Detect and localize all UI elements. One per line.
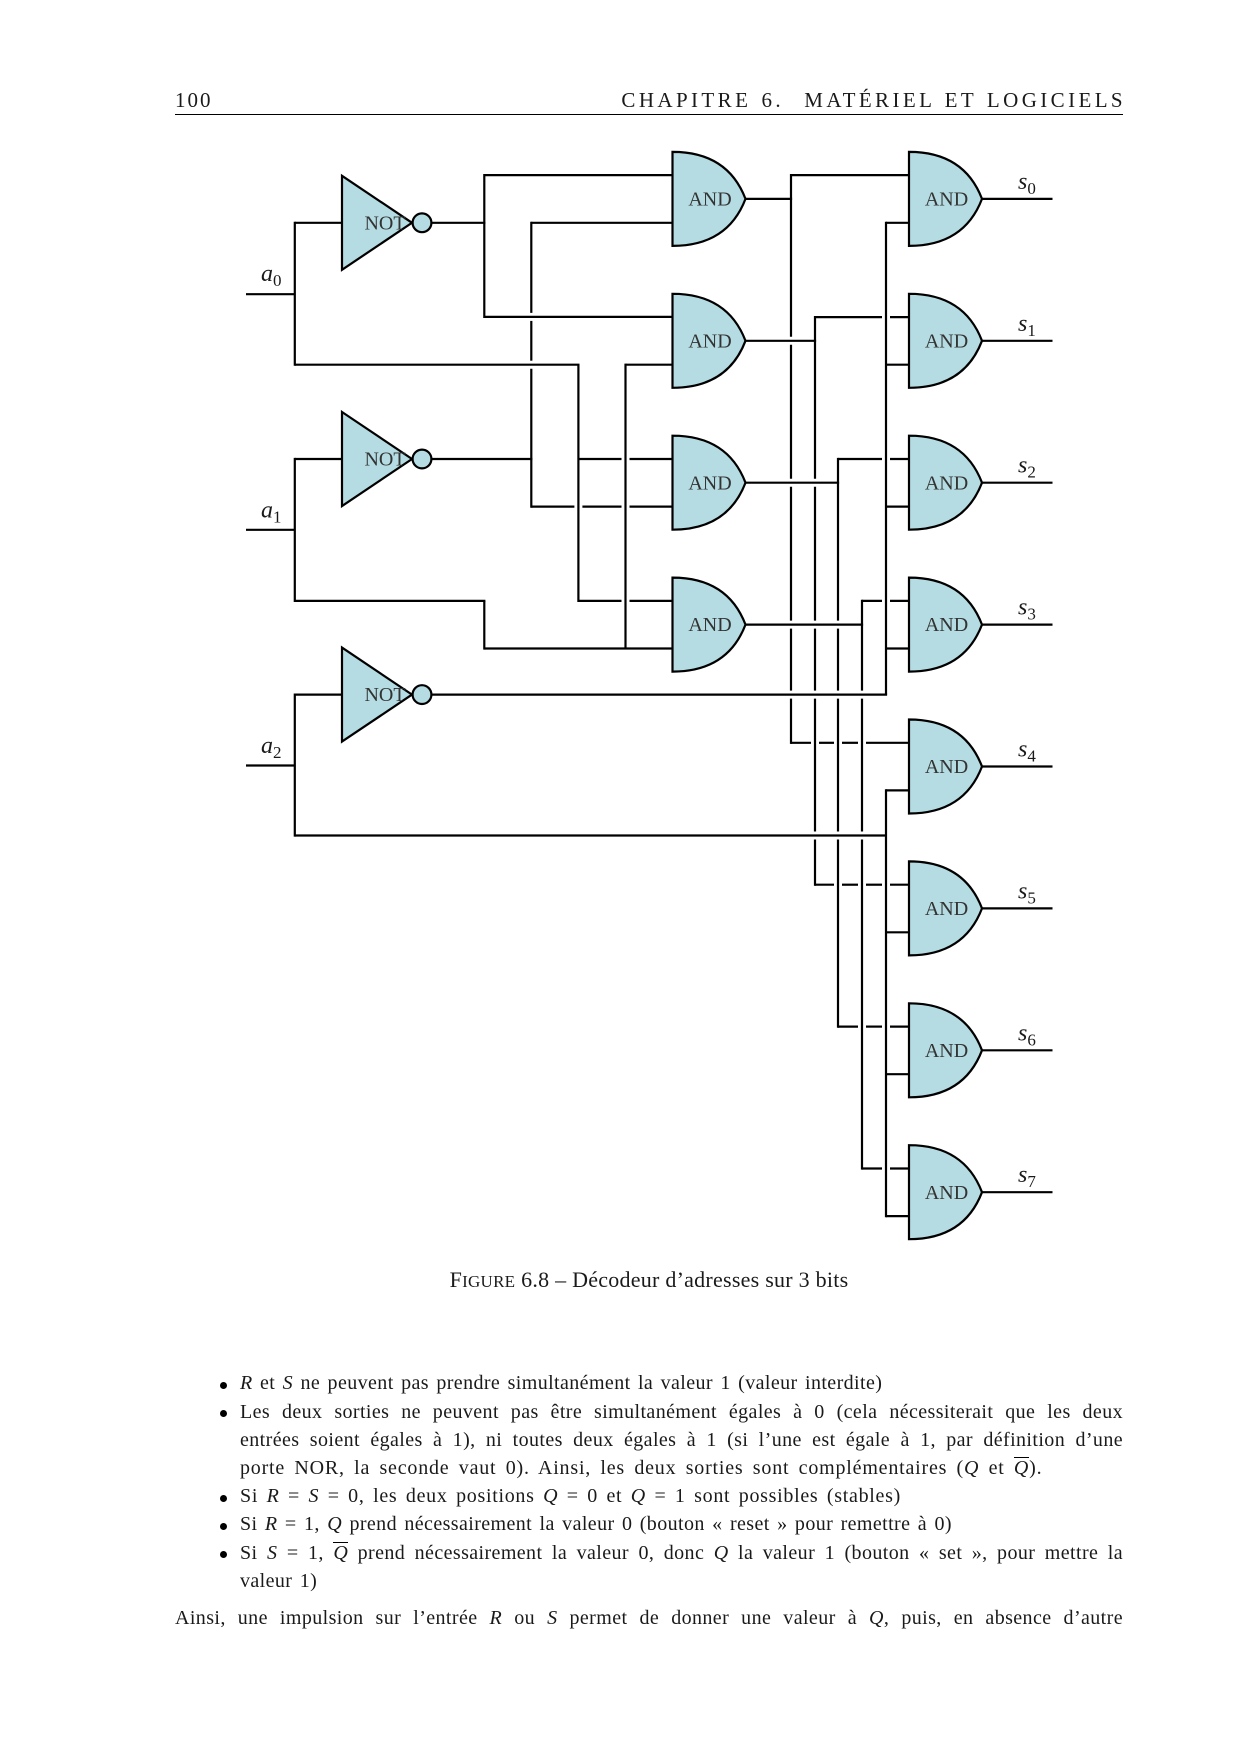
running header: [175, 88, 213, 113]
wire NOT U3 output (not a2) rail to AND S0..S3 bottom inputs: [432, 222, 912, 695]
AND gate S5: [909, 861, 982, 955]
wire AND T1 output to AND S0 / S4 top inputs: [746, 174, 912, 744]
wire output s1: [982, 340, 1053, 342]
svg-text:s4: s4: [1018, 737, 1036, 766]
AND gate T2: [673, 294, 746, 388]
wire input a1: stub, riser and NOT U2 input: [246, 458, 343, 602]
wire AND T4 output to AND S3 / S7 top inputs: [746, 600, 912, 1170]
wire output s6: [982, 1049, 1053, 1051]
svg-text:AND: AND: [925, 189, 968, 211]
wire output s3: [982, 623, 1053, 625]
wire a2 rail to AND S4..S7 bottom inputs: [295, 789, 911, 1217]
wire NOT U2 output (not a1) to AND T1 / T3 bottom inputs: [432, 222, 675, 508]
svg-text:AND: AND: [925, 898, 968, 920]
AND gate S1: [909, 294, 982, 388]
svg-text:NOT: NOT: [364, 684, 405, 706]
inverter U1 (NOT gate): [342, 176, 431, 270]
AND gate S6: [909, 1003, 982, 1097]
svg-text:s7: s7: [1018, 1162, 1036, 1191]
AND gate S4: [909, 720, 982, 814]
AND gate S7: [909, 1145, 982, 1239]
svg-text:s3: s3: [1018, 595, 1036, 624]
svg-text:s5: s5: [1018, 878, 1036, 907]
svg-text:a1: a1: [261, 497, 282, 526]
wire output s7: [982, 1191, 1053, 1193]
wire output s2: [982, 482, 1053, 484]
AND gate S0: [909, 152, 982, 246]
svg-text:AND: AND: [688, 614, 731, 636]
svg-text:AND: AND: [925, 330, 968, 352]
wire output s4: [982, 765, 1053, 767]
svg-text:s2: s2: [1018, 453, 1036, 482]
wire a1 bus to AND T4 bottom / AND T2 bottom inputs: [295, 364, 675, 650]
svg-text:s1: s1: [1018, 311, 1036, 340]
wire a0 bus to AND T3 / AND T4 top inputs: [295, 365, 675, 602]
wire AND T3 output to AND S2 / S6 top inputs: [746, 458, 912, 1028]
svg-text:s6: s6: [1018, 1020, 1036, 1049]
itemize list and paragraph: [220, 1382, 227, 1389]
svg-text:s0: s0: [1018, 169, 1036, 198]
wire output s0: [982, 198, 1053, 200]
svg-text:NOT: NOT: [364, 212, 405, 234]
AND gate T4: [673, 578, 746, 672]
svg-text:AND: AND: [925, 614, 968, 636]
wire input a2: stub, riser and NOT U3 input: [246, 694, 343, 837]
wire AND T2 output to AND S1 / S5 top inputs: [746, 316, 912, 886]
figure caption: [175, 1267, 1123, 1293]
inverter U2 (NOT gate): [342, 412, 431, 506]
svg-text:AND: AND: [925, 1182, 968, 1204]
svg-text:AND: AND: [688, 189, 731, 211]
svg-text:NOT: NOT: [364, 449, 405, 471]
wire NOT U1 output (not a0) to AND T1 / T2 top inputs: [432, 174, 675, 318]
AND gate S3: [909, 578, 982, 672]
svg-text:AND: AND: [688, 330, 731, 352]
inverter U3 (NOT gate): [342, 648, 431, 742]
svg-text:AND: AND: [688, 472, 731, 494]
svg-text:a0: a0: [261, 261, 282, 290]
svg-text:AND: AND: [925, 756, 968, 778]
AND gate T1: [673, 152, 746, 246]
AND gate T3: [673, 436, 746, 530]
wire input a0: stub, riser and NOT U1 input: [246, 222, 343, 366]
svg-text:AND: AND: [925, 1040, 968, 1062]
wire output s5: [982, 907, 1053, 909]
svg-text:a2: a2: [261, 733, 282, 762]
AND gate S2: [909, 436, 982, 530]
svg-text:AND: AND: [925, 472, 968, 494]
